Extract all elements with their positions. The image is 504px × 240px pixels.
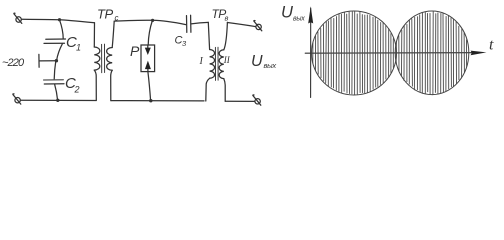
transformer TPv secondary top stub — [224, 22, 228, 49]
svg-text:1: 1 — [76, 43, 81, 53]
transformer TPv primary bottom stub — [206, 78, 210, 101]
svg-text:в: в — [225, 14, 229, 23]
mains connection bar — [38, 54, 40, 67]
svg-text:вых: вых — [264, 61, 277, 70]
waveform lobe1 oscillation — [313, 12, 394, 95]
node junction discharger bottom — [149, 99, 152, 102]
transformer TPc secondary top stub — [112, 21, 114, 47]
node junction discharger top — [151, 19, 154, 22]
svg-text:3: 3 — [182, 39, 187, 48]
wire C3 to TPv — [191, 22, 208, 24]
transformer TPv secondary bottom stub — [224, 79, 225, 102]
svg-text:II: II — [223, 55, 231, 65]
wire mains stub horizontal — [40, 60, 57, 62]
graph axis vertical — [310, 8, 312, 98]
terminal input bottom-left — [13, 94, 21, 104]
transformer TPc primary winding — [94, 47, 100, 70]
wire C1 branch upper — [60, 20, 64, 39]
wire output bottom — [225, 100, 254, 102]
transformer TPv core — [215, 47, 218, 80]
node junction top C1 — [58, 18, 61, 21]
terminal output bottom-right — [253, 95, 261, 105]
capacitor C1 — [44, 39, 66, 43]
wire C1 to mid node — [57, 44, 63, 61]
wire discharger branch upper — [148, 21, 152, 46]
waveform lobe2 envelope — [395, 11, 469, 95]
svg-text:U: U — [281, 4, 293, 22]
transformer TPv secondary winding — [219, 50, 224, 79]
svg-text:2: 2 — [74, 85, 80, 95]
wire bottom-left horizontal — [21, 99, 96, 101]
terminal input top-left — [14, 13, 22, 23]
svg-text:I: I — [199, 56, 204, 67]
waveform lobe2 oscillation — [396, 11, 466, 94]
waveform lobe1 envelope — [312, 11, 397, 95]
graph axis horizontal arrowhead — [471, 51, 487, 56]
node junction bottom C2 — [56, 99, 59, 102]
svg-text:t: t — [489, 37, 494, 54]
transformer TPc core — [102, 44, 105, 73]
svg-text:вых: вых — [293, 16, 305, 23]
node mid junction — [55, 59, 58, 62]
wire mid node to C2 — [54, 61, 56, 79]
svg-text:P: P — [130, 43, 140, 59]
svg-text:TP: TP — [97, 7, 113, 22]
graph axis vertical arrowhead — [308, 6, 313, 23]
discharger P box — [141, 45, 155, 72]
wire discharger branch lower — [148, 72, 151, 101]
wire bottom middle — [111, 100, 204, 102]
capacitor C2 — [44, 80, 64, 84]
transformer TPc primary bottom stub — [94, 70, 96, 100]
graph axis horizontal — [305, 52, 472, 55]
wire output top — [227, 23, 255, 27]
svg-text:~220: ~220 — [2, 57, 25, 69]
transformer TPv primary top stub — [208, 22, 209, 49]
svg-text:U: U — [251, 53, 263, 70]
terminal output top-right — [254, 21, 262, 31]
wire top middle (TPc to C3) — [114, 20, 186, 24]
transformer TPc primary top stub — [93, 23, 95, 47]
transformer TPc secondary bottom stub — [111, 70, 113, 100]
discharger lower electrode arrow — [145, 61, 151, 72]
capacitor C3 series — [187, 15, 191, 32]
wire top-left horizontal — [22, 19, 95, 23]
discharger upper electrode arrow — [145, 45, 151, 55]
transformer TPv primary winding — [210, 50, 215, 79]
transformer TPc secondary winding — [107, 48, 113, 71]
wire C2 to bottom — [55, 84, 58, 100]
